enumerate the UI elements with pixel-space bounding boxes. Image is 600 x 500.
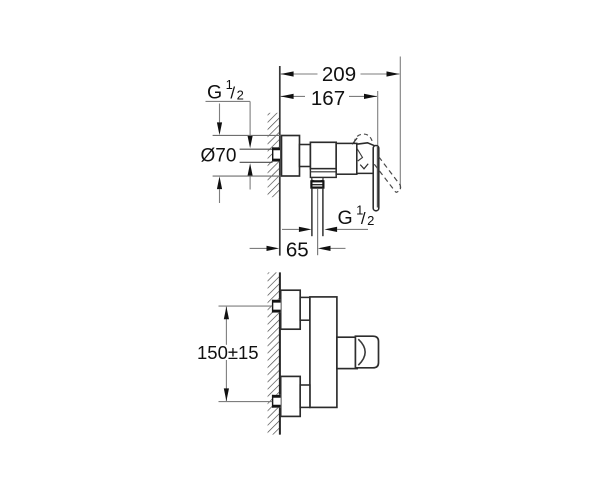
lever handle (down position): [373, 146, 379, 211]
flange diameter extension lines (O70): [213, 134, 282, 136]
body (bottom view): [310, 297, 337, 408]
upper neck: [300, 297, 310, 320]
wall hatch (bottom): [268, 272, 280, 434]
dimension 65 left line and arrowhead: [250, 247, 267, 249]
body: [310, 142, 336, 168]
dimension 167 line: [281, 95, 377, 97]
150+-15 down arrowhead: [224, 388, 229, 401]
knob (lever end-on): [355, 336, 378, 368]
wall surface line (bottom): [279, 272, 281, 434]
body base band: [310, 169, 336, 178]
svg-text:65: 65: [286, 239, 309, 262]
cartridge cone: [357, 143, 378, 174]
dashed lever lines (raised position): [379, 157, 401, 185]
lower wall square: [272, 395, 280, 408]
dashed ball arc (raised lever position): [354, 134, 373, 143]
pipe G1/2 dimension right arrowhead and line: [324, 227, 337, 232]
O70 dim vertical above with down arrow: [219, 104, 221, 123]
svg-text:Ø70: Ø70: [201, 146, 237, 167]
outlet pipe: [311, 188, 313, 237]
cartridge housing: [336, 143, 357, 174]
extension line continuation over lever: [376, 146, 378, 208]
lower neck: [300, 385, 310, 407]
wall surface line: [279, 66, 281, 256]
pipe G1/2 dimension left line and arrowhead: [282, 228, 299, 230]
150+-15 dimension line segments: [225, 307, 227, 345]
svg-text:150±15: 150±15: [197, 342, 259, 363]
svg-text:G1/2: G1/2: [207, 77, 244, 104]
extension line right of 209: [399, 57, 401, 189]
dimension 209 line: [281, 73, 400, 75]
leader vertical with down arrow to pipe top: [249, 101, 251, 135]
upper wall square: [272, 300, 280, 313]
svg-text:209: 209: [322, 63, 356, 86]
dimension 167 arrowheads: [281, 94, 377, 99]
cartridge housing (bottom view): [337, 337, 357, 368]
wall hatch (top view wall section): [268, 113, 280, 197]
cone internal lines: [357, 149, 363, 162]
pipe stub in wall (square with thick bars): [273, 147, 281, 161]
150+-15 extension lines: [219, 305, 273, 307]
pipe centre extension line: [317, 189, 319, 255]
flange (escutcheon): [282, 136, 300, 177]
upper union block: [281, 290, 301, 329]
svg-text:167: 167: [311, 87, 345, 110]
outlet nut: [311, 181, 323, 187]
small bevel line top-left of cone: [352, 138, 357, 144]
neck: [300, 145, 311, 167]
lower union block: [281, 376, 301, 416]
150+-15 up arrowhead: [224, 307, 229, 320]
dimension 65 right arrowhead and line: [318, 246, 331, 251]
O70 dim vertical below with up arrow: [217, 176, 222, 189]
leader underline of G 1/2: [206, 100, 251, 102]
dimension 209 arrowheads: [281, 71, 400, 76]
knob face arc: [358, 339, 365, 365]
extension line right of 167: [377, 91, 379, 146]
outlet transition: [312, 177, 323, 181]
svg-text:G1/2: G1/2: [338, 203, 375, 230]
up arrow to pipe bottom and tail: [248, 163, 253, 176]
pipe stub extension lines to wall: [240, 148, 273, 150]
